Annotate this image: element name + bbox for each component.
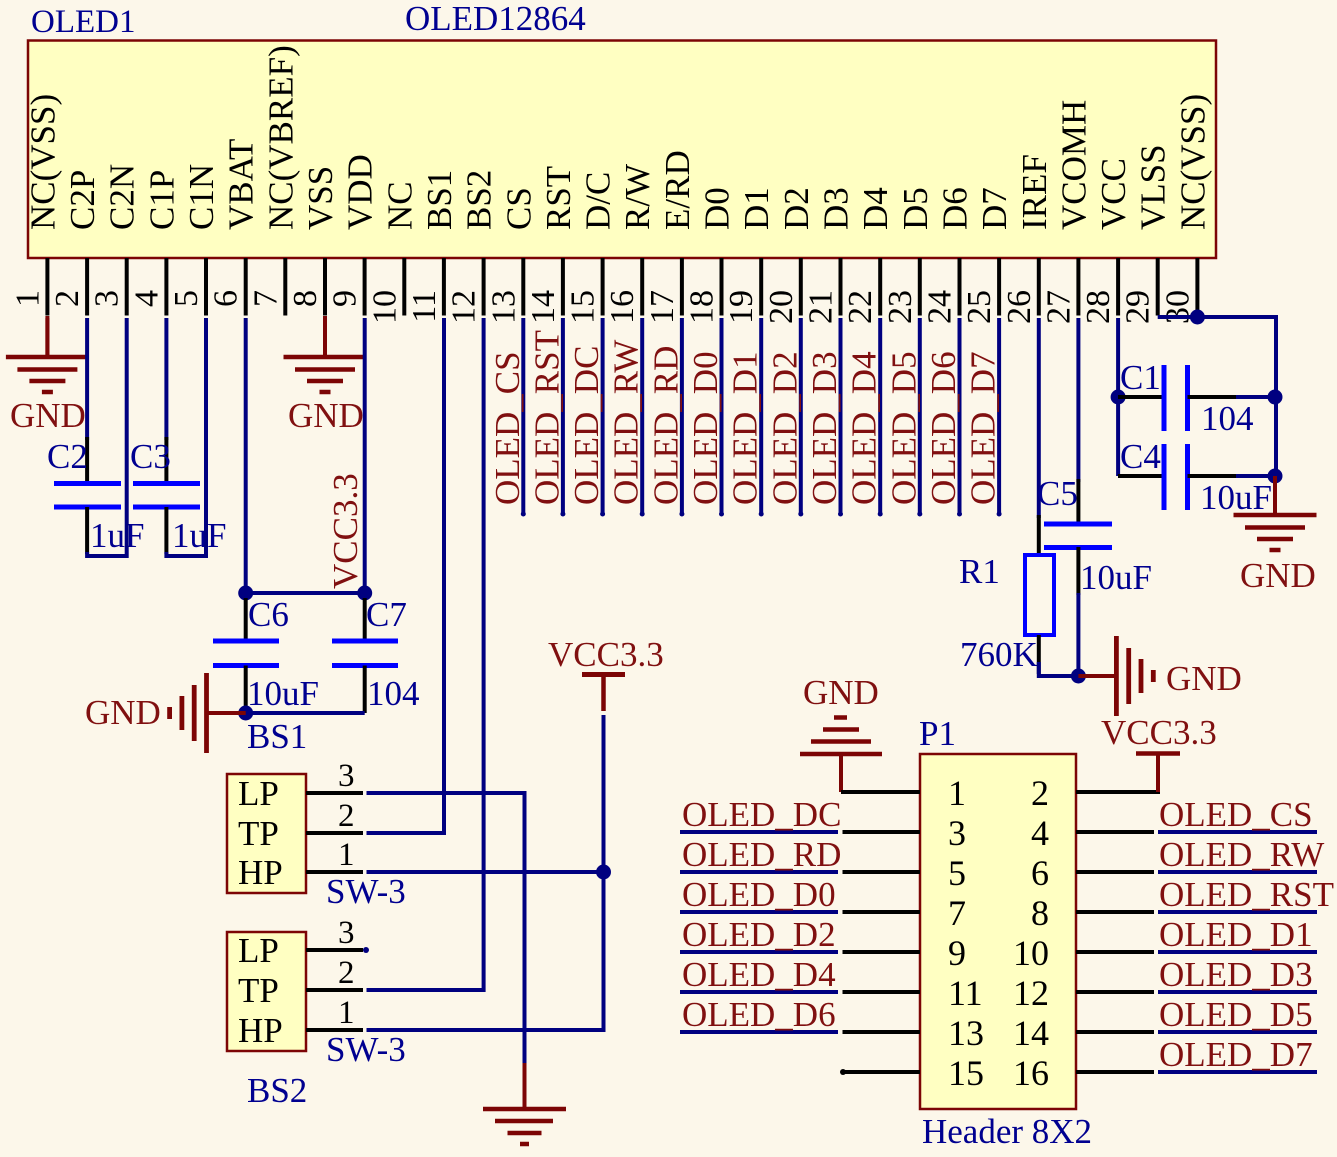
wire pin12 to BS2 switch pin2 bbox=[367, 318, 484, 990]
svg-text:2: 2 bbox=[338, 955, 355, 991]
wire pin27 to C5 bbox=[1076, 318, 1080, 482]
wire P1 pin1 to ground bbox=[841, 790, 920, 794]
BS1 pin 2 bbox=[306, 798, 363, 834]
wire BS1 pin3 to ground rail bbox=[367, 793, 525, 1065]
svg-text:2: 2 bbox=[49, 290, 86, 307]
wire/net OLED_D5 on pin 23 bbox=[884, 318, 923, 517]
wire/net OLED_RST from P1 bbox=[1076, 875, 1334, 914]
svg-text:OLED_D7: OLED_D7 bbox=[964, 351, 1003, 505]
svg-text:OLED_RW: OLED_RW bbox=[607, 340, 646, 505]
junction node C1 left bbox=[1111, 390, 1126, 405]
svg-text:P1: P1 bbox=[919, 714, 956, 753]
svg-text:104: 104 bbox=[367, 674, 420, 713]
svg-text:OLED_D5: OLED_D5 bbox=[884, 351, 923, 505]
svg-text:23: 23 bbox=[882, 290, 919, 324]
ground bottom center bbox=[483, 1109, 566, 1144]
svg-text:IREF: IREF bbox=[1015, 154, 1054, 230]
svg-text:VSS: VSS bbox=[301, 166, 340, 230]
BS1 pin 3 bbox=[306, 758, 363, 794]
wire pin26 to R1 bbox=[1037, 318, 1041, 518]
svg-text:1: 1 bbox=[948, 773, 966, 813]
svg-text:R/W: R/W bbox=[618, 164, 657, 230]
svg-text:OLED12864: OLED12864 bbox=[405, 0, 586, 38]
svg-text:R1: R1 bbox=[959, 552, 1000, 591]
svg-text:13: 13 bbox=[948, 1013, 984, 1053]
svg-text:BS1: BS1 bbox=[420, 170, 459, 230]
svg-text:C4: C4 bbox=[1120, 437, 1161, 476]
svg-text:C2N: C2N bbox=[103, 164, 142, 230]
svg-text:GND: GND bbox=[1240, 556, 1316, 595]
svg-text:OLED_D2: OLED_D2 bbox=[682, 915, 836, 954]
svg-text:GND: GND bbox=[85, 693, 161, 732]
svg-text:7: 7 bbox=[948, 893, 966, 933]
svg-text:LP: LP bbox=[238, 931, 279, 970]
svg-text:OLED_RW: OLED_RW bbox=[1159, 835, 1324, 874]
svg-text:104: 104 bbox=[1201, 399, 1254, 438]
wire/net OLED_D6 to P1 bbox=[680, 995, 920, 1034]
svg-text:OLED_D6: OLED_D6 bbox=[924, 351, 963, 505]
svg-text:3: 3 bbox=[89, 290, 126, 307]
svg-text:2: 2 bbox=[338, 798, 355, 834]
wire/net OLED_DC to P1 bbox=[680, 795, 920, 834]
pin 19 (D1) bbox=[723, 187, 776, 324]
wire/net OLED_D1 on pin 19 bbox=[726, 318, 765, 517]
svg-text:D1: D1 bbox=[737, 187, 776, 230]
pin 5 (C1N) bbox=[168, 164, 221, 316]
wire/net OLED_D3 from P1 bbox=[1076, 955, 1317, 994]
pin 24 (D6) bbox=[922, 187, 975, 324]
capacitor C7 bbox=[332, 595, 420, 713]
svg-text:5: 5 bbox=[168, 290, 205, 307]
svg-text:2: 2 bbox=[1031, 773, 1049, 813]
junction node pin30 bbox=[1190, 310, 1205, 325]
svg-text:D/C: D/C bbox=[579, 172, 618, 230]
svg-text:OLED_D4: OLED_D4 bbox=[682, 955, 836, 994]
pin 8 (VSS) bbox=[287, 166, 340, 316]
svg-text:HP: HP bbox=[238, 1011, 283, 1050]
capacitor C5 bbox=[1037, 474, 1152, 597]
svg-text:CS: CS bbox=[499, 187, 538, 230]
junction node C1 right bbox=[1268, 390, 1283, 405]
svg-text:D2: D2 bbox=[777, 187, 816, 230]
svg-text:24: 24 bbox=[922, 290, 959, 324]
svg-text:VLSS: VLSS bbox=[1134, 144, 1173, 230]
capacitor C1 bbox=[1118, 358, 1275, 438]
capacitor C2 bbox=[47, 437, 144, 555]
svg-text:4: 4 bbox=[1031, 813, 1049, 853]
wire/net OLED_D7 from P1 bbox=[1076, 1035, 1317, 1074]
svg-text:OLED_RD: OLED_RD bbox=[682, 835, 841, 874]
wire pin11 to BS1 switch pin2 bbox=[367, 318, 445, 833]
svg-text:15: 15 bbox=[948, 1053, 984, 1093]
svg-text:OLED_D5: OLED_D5 bbox=[1159, 995, 1313, 1034]
pin 7 (NC(VBREF)) bbox=[247, 45, 300, 315]
svg-text:20: 20 bbox=[763, 290, 800, 324]
svg-text:OLED_D2: OLED_D2 bbox=[765, 351, 804, 505]
svg-text:4: 4 bbox=[128, 290, 165, 307]
svg-text:22: 22 bbox=[842, 290, 879, 324]
svg-text:VCC3.3: VCC3.3 bbox=[1101, 713, 1217, 752]
wire/net OLED_D2 to P1 bbox=[680, 915, 920, 954]
wire pin29/pin30 to right rail bbox=[1158, 317, 1276, 478]
svg-text:OLED_D1: OLED_D1 bbox=[1159, 915, 1313, 954]
switch BS1 (SW-3) body bbox=[227, 774, 306, 893]
pin 27 (VCOMH) bbox=[1040, 100, 1093, 324]
wire/net OLED_D7 on pin 25 bbox=[964, 318, 1003, 517]
junction node IREF/VCOMH ground bbox=[1071, 669, 1086, 684]
svg-text:C1N: C1N bbox=[182, 164, 221, 230]
svg-text:1: 1 bbox=[338, 837, 355, 873]
svg-text:NC: NC bbox=[380, 181, 419, 230]
wire/net OLED_CS from P1 bbox=[1076, 795, 1317, 834]
pin 1 (NC(VSS)) bbox=[9, 94, 62, 316]
wire VCC rail down to BS2 pin1 bbox=[367, 715, 604, 1030]
svg-text:5: 5 bbox=[948, 853, 966, 893]
pin 21 (D3) bbox=[803, 187, 856, 324]
wire C6 bottom to C7 bottom bbox=[246, 711, 365, 715]
svg-text:12: 12 bbox=[446, 290, 483, 324]
power VCC3.3 near P1 bbox=[1101, 713, 1217, 792]
svg-text:GND: GND bbox=[288, 396, 364, 435]
svg-text:10: 10 bbox=[366, 290, 403, 324]
svg-text:VCOMH: VCOMH bbox=[1054, 100, 1093, 230]
capacitor C4 bbox=[1118, 437, 1275, 517]
pin 3 (C2N) bbox=[89, 164, 142, 316]
svg-text:OLED_D3: OLED_D3 bbox=[1159, 955, 1313, 994]
wire/net OLED_RW from P1 bbox=[1076, 835, 1324, 874]
svg-text:3: 3 bbox=[338, 915, 355, 951]
pin 2 (C2P) bbox=[49, 170, 102, 316]
svg-text:BS1: BS1 bbox=[247, 717, 307, 756]
svg-text:C1: C1 bbox=[1120, 358, 1161, 397]
pin 17 (E/RD) bbox=[644, 150, 697, 324]
power VCC3.3 mid bbox=[548, 635, 664, 711]
wire pin9 down (VCC3.3 net) bbox=[363, 318, 367, 593]
pin 9 (VDD) bbox=[327, 154, 380, 315]
BS2 pin3 open end bbox=[363, 947, 369, 953]
svg-text:12: 12 bbox=[1013, 973, 1049, 1013]
svg-text:21: 21 bbox=[803, 290, 840, 324]
svg-text:SW-3: SW-3 bbox=[326, 872, 406, 911]
svg-text:OLED_RD: OLED_RD bbox=[646, 346, 685, 505]
svg-text:19: 19 bbox=[723, 290, 760, 324]
pin 18 (D0) bbox=[684, 187, 737, 324]
pin 20 (D2) bbox=[763, 187, 816, 324]
junction node C6 top bbox=[238, 586, 253, 601]
pin 4 (C1P) bbox=[128, 170, 181, 316]
wire/net OLED_RD on pin 17 bbox=[646, 318, 685, 517]
pin 16 (R/W) bbox=[604, 164, 657, 324]
svg-text:7: 7 bbox=[247, 290, 284, 307]
svg-text:Header 8X2: Header 8X2 bbox=[922, 1112, 1092, 1151]
svg-text:VDD: VDD bbox=[341, 154, 380, 230]
svg-text:6: 6 bbox=[208, 290, 245, 307]
svg-text:VCC3.3: VCC3.3 bbox=[326, 473, 365, 589]
junction node C6 bottom bbox=[238, 706, 253, 721]
BS2 pin 2 bbox=[306, 955, 363, 991]
svg-text:760K: 760K bbox=[960, 635, 1038, 674]
pin 11 (BS1) bbox=[406, 170, 459, 323]
junction node C4 right bbox=[1268, 469, 1283, 484]
svg-text:OLED_DC: OLED_DC bbox=[682, 795, 841, 834]
svg-text:NC(VSS): NC(VSS) bbox=[1173, 94, 1212, 230]
svg-text:C1P: C1P bbox=[142, 170, 181, 230]
svg-text:10uF: 10uF bbox=[1080, 558, 1152, 597]
wire/net OLED_D1 from P1 bbox=[1076, 915, 1317, 954]
svg-text:OLED1: OLED1 bbox=[31, 4, 135, 40]
svg-text:GND: GND bbox=[10, 396, 86, 435]
svg-text:1uF: 1uF bbox=[172, 516, 226, 555]
ground sideways near BS1 bbox=[85, 673, 246, 753]
svg-text:1: 1 bbox=[9, 290, 46, 307]
svg-text:RST: RST bbox=[539, 166, 578, 230]
wire pin8 to ground bbox=[323, 318, 327, 357]
svg-text:10uF: 10uF bbox=[247, 674, 319, 713]
header P1 body bbox=[920, 754, 1076, 1109]
wire/net OLED_D4 to P1 bbox=[680, 955, 920, 994]
ground near P1 (inverted) bbox=[800, 673, 882, 792]
pin 15 (D/C) bbox=[565, 172, 618, 324]
svg-text:NC(VSS): NC(VSS) bbox=[23, 94, 62, 230]
svg-text:D6: D6 bbox=[936, 187, 975, 230]
wire pin2 to C2 bbox=[85, 318, 89, 440]
wire R1 bottom to junction bbox=[1037, 635, 1041, 674]
ground GND at pin8 bbox=[284, 316, 367, 435]
pin 22 (D4) bbox=[842, 187, 895, 324]
wire C2 bottom to pin3 bbox=[85, 507, 89, 554]
pin 26 (IREF) bbox=[1001, 154, 1054, 324]
wire ground rail stem bbox=[523, 1063, 527, 1109]
ground sideways near R1 bbox=[1078, 636, 1241, 716]
wire C3 bottom to pin5 bbox=[164, 507, 168, 554]
svg-text:OLED_D6: OLED_D6 bbox=[682, 995, 836, 1034]
svg-text:TP: TP bbox=[238, 814, 279, 853]
svg-text:8: 8 bbox=[1031, 893, 1049, 933]
svg-text:GND: GND bbox=[1166, 659, 1242, 698]
wire/net OLED_D4 on pin 22 bbox=[845, 318, 884, 517]
BS2 pin 3 bbox=[306, 915, 363, 951]
wire/net OLED_DC on pin 15 bbox=[567, 318, 606, 517]
svg-text:OLED_D1: OLED_D1 bbox=[726, 351, 765, 505]
svg-text:C5: C5 bbox=[1037, 474, 1078, 513]
wire/net OLED_D2 on pin 20 bbox=[765, 318, 804, 517]
wire/net OLED_D5 from P1 bbox=[1076, 995, 1317, 1034]
wire pin28 down bbox=[1116, 318, 1120, 476]
svg-text:3: 3 bbox=[948, 813, 966, 853]
svg-text:C6: C6 bbox=[248, 595, 289, 634]
svg-text:NC(VBREF): NC(VBREF) bbox=[261, 45, 300, 230]
svg-text:OLED_CS: OLED_CS bbox=[488, 351, 527, 505]
pin 30 (NC(VSS)) bbox=[1159, 94, 1212, 324]
svg-text:8: 8 bbox=[287, 290, 324, 307]
pin 28 (VCC) bbox=[1080, 158, 1133, 324]
switch BS2 (SW-3) body bbox=[227, 932, 306, 1051]
wire/net OLED_RST on pin 14 bbox=[527, 318, 566, 517]
svg-text:11: 11 bbox=[948, 973, 983, 1013]
wire/net OLED_D6 on pin 24 bbox=[924, 318, 963, 517]
pin 25 (D7) bbox=[961, 187, 1014, 324]
BS2 pin 1 bbox=[306, 995, 363, 1031]
svg-text:27: 27 bbox=[1040, 290, 1077, 324]
pin 6 (VBAT) bbox=[208, 139, 261, 316]
svg-text:E/RD: E/RD bbox=[658, 150, 697, 230]
wire/net OLED_D3 on pin 21 bbox=[805, 318, 844, 517]
svg-text:10: 10 bbox=[1013, 933, 1049, 973]
svg-text:1: 1 bbox=[338, 995, 355, 1031]
wire P1 pin2 to VCC3.3 bbox=[1076, 790, 1160, 794]
wire pin4 to C3 bbox=[164, 318, 168, 440]
svg-text:VCC: VCC bbox=[1094, 158, 1133, 230]
svg-text:C7: C7 bbox=[366, 595, 407, 634]
svg-text:16: 16 bbox=[604, 290, 641, 324]
pin 29 (VLSS) bbox=[1120, 144, 1173, 324]
wire C6 top to C7 top bbox=[246, 591, 365, 595]
svg-text:C2: C2 bbox=[47, 437, 88, 476]
svg-text:C2P: C2P bbox=[63, 170, 102, 230]
wire/net OLED_RW on pin 16 bbox=[607, 318, 646, 517]
wire/net OLED_D0 on pin 18 bbox=[686, 318, 725, 517]
svg-text:15: 15 bbox=[565, 290, 602, 324]
svg-text:OLED_CS: OLED_CS bbox=[1159, 795, 1313, 834]
svg-text:D7: D7 bbox=[975, 187, 1014, 230]
wire/net OLED_CS on pin 13 bbox=[488, 318, 527, 517]
ground GND at pin1 bbox=[6, 316, 89, 435]
svg-text:GND: GND bbox=[803, 673, 879, 712]
capacitor C3 bbox=[130, 437, 226, 555]
svg-text:16: 16 bbox=[1013, 1053, 1049, 1093]
svg-text:1uF: 1uF bbox=[90, 516, 144, 555]
svg-text:OLED_DC: OLED_DC bbox=[567, 346, 606, 505]
pin 13 (CS) bbox=[485, 187, 538, 324]
svg-text:D0: D0 bbox=[698, 187, 737, 230]
svg-text:HP: HP bbox=[238, 853, 283, 892]
svg-text:14: 14 bbox=[525, 290, 562, 324]
wire/net OLED_RD to P1 bbox=[680, 835, 920, 874]
svg-text:TP: TP bbox=[238, 971, 279, 1010]
svg-text:26: 26 bbox=[1001, 290, 1038, 324]
svg-text:D4: D4 bbox=[856, 187, 895, 230]
svg-text:9: 9 bbox=[327, 290, 364, 307]
BS1 pin 1 bbox=[306, 837, 363, 873]
junction node VCC rail / BS1 pin1 bbox=[596, 865, 611, 880]
pin 10 (NC) bbox=[366, 181, 419, 324]
svg-text:SW-3: SW-3 bbox=[326, 1030, 406, 1069]
svg-text:29: 29 bbox=[1120, 290, 1157, 324]
pin 14 (RST) bbox=[525, 166, 578, 324]
capacitor C6 bbox=[213, 595, 319, 713]
wire pin6 down to C6 node bbox=[244, 318, 248, 593]
resistor R1 bbox=[959, 552, 1054, 674]
svg-text:9: 9 bbox=[948, 933, 966, 973]
svg-text:OLED_D0: OLED_D0 bbox=[686, 351, 725, 505]
pin 12 (BS2) bbox=[446, 170, 499, 324]
svg-text:OLED_D4: OLED_D4 bbox=[845, 351, 884, 505]
svg-text:D5: D5 bbox=[896, 187, 935, 230]
svg-text:6: 6 bbox=[1031, 853, 1049, 893]
wire/net OLED_D0 to P1 bbox=[680, 875, 920, 914]
ground right rail bbox=[1234, 476, 1317, 595]
wire C5 bottom to junction bbox=[1076, 547, 1080, 595]
svg-text:18: 18 bbox=[684, 290, 721, 324]
svg-text:BS2: BS2 bbox=[460, 170, 499, 230]
svg-text:LP: LP bbox=[238, 774, 279, 813]
wire pin1 to ground bbox=[45, 318, 49, 357]
svg-text:17: 17 bbox=[644, 290, 681, 324]
svg-text:D3: D3 bbox=[817, 187, 856, 230]
svg-text:OLED_D3: OLED_D3 bbox=[805, 351, 844, 505]
svg-text:25: 25 bbox=[961, 290, 998, 324]
svg-text:28: 28 bbox=[1080, 290, 1117, 324]
svg-text:VBAT: VBAT bbox=[222, 139, 261, 230]
svg-text:VCC3.3: VCC3.3 bbox=[548, 635, 664, 674]
junction node C7 top bbox=[357, 586, 372, 601]
svg-text:BS2: BS2 bbox=[247, 1071, 307, 1110]
svg-text:C3: C3 bbox=[130, 437, 171, 476]
svg-text:10uF: 10uF bbox=[1200, 478, 1272, 517]
svg-text:OLED_D0: OLED_D0 bbox=[682, 875, 836, 914]
svg-text:11: 11 bbox=[406, 290, 443, 323]
svg-text:13: 13 bbox=[485, 290, 522, 324]
svg-text:3: 3 bbox=[338, 758, 355, 794]
svg-text:OLED_RST: OLED_RST bbox=[527, 330, 566, 505]
svg-text:14: 14 bbox=[1013, 1013, 1049, 1053]
OLED module OLED1 body bbox=[28, 41, 1216, 259]
wire P1 pin15 stub bbox=[840, 1069, 920, 1075]
pin 23 (D5) bbox=[882, 187, 935, 324]
wire BS1 pin1 to VCC rail bbox=[367, 870, 604, 874]
svg-text:OLED_RST: OLED_RST bbox=[1159, 875, 1334, 914]
svg-text:OLED_D7: OLED_D7 bbox=[1159, 1035, 1313, 1074]
